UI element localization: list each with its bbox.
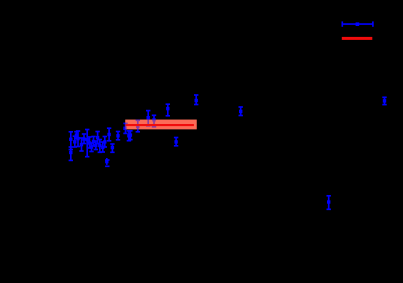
errorbar point 6 <box>79 138 83 151</box>
legend red line sample <box>342 37 373 40</box>
errorbar point 12 <box>94 141 98 150</box>
errorbar point 29 <box>194 95 198 105</box>
errorbar point 7 <box>82 134 86 144</box>
errorbar point 16 <box>103 137 107 148</box>
errorbar point 32 <box>382 97 386 104</box>
errorbar point 15 <box>101 142 105 152</box>
errorbar point 25 <box>146 111 150 126</box>
errorbar point 11 <box>91 137 95 147</box>
errorbar point 18 <box>107 128 111 141</box>
errorbar point 1 <box>69 132 73 150</box>
errorbar point 21 <box>123 123 127 133</box>
errorbar point 9 <box>87 137 91 148</box>
errorbar point 4 <box>74 132 78 139</box>
errorbar point 22 <box>127 131 131 141</box>
legend errorbar sample <box>342 21 373 26</box>
errorbar point 19 <box>110 144 114 152</box>
errorbar point 10 <box>89 143 93 152</box>
shaded band (axhspan) <box>125 120 196 130</box>
errorbar point 17 <box>105 158 109 166</box>
band center line (axhline) <box>126 124 194 126</box>
errorbar point 3 <box>73 136 77 147</box>
errorbar point 26 <box>152 115 156 127</box>
errorbar point 23 <box>128 131 132 140</box>
errorbar point 31 <box>327 196 331 210</box>
errorbar point 13 <box>95 132 99 144</box>
errorbar point 28 <box>174 138 178 146</box>
errorbar point 24 <box>136 120 140 132</box>
errorbar point 14 <box>98 140 102 153</box>
errorbar point 8 <box>85 130 89 157</box>
errorbar point 27 <box>166 104 170 116</box>
errorbar point 2 <box>69 147 73 160</box>
band translucent overlay (axhspan alpha over markers) <box>125 120 196 130</box>
errorbar point 5 <box>76 131 80 147</box>
errorbar point 20 <box>116 132 120 140</box>
errorbar point 30 <box>239 107 243 116</box>
